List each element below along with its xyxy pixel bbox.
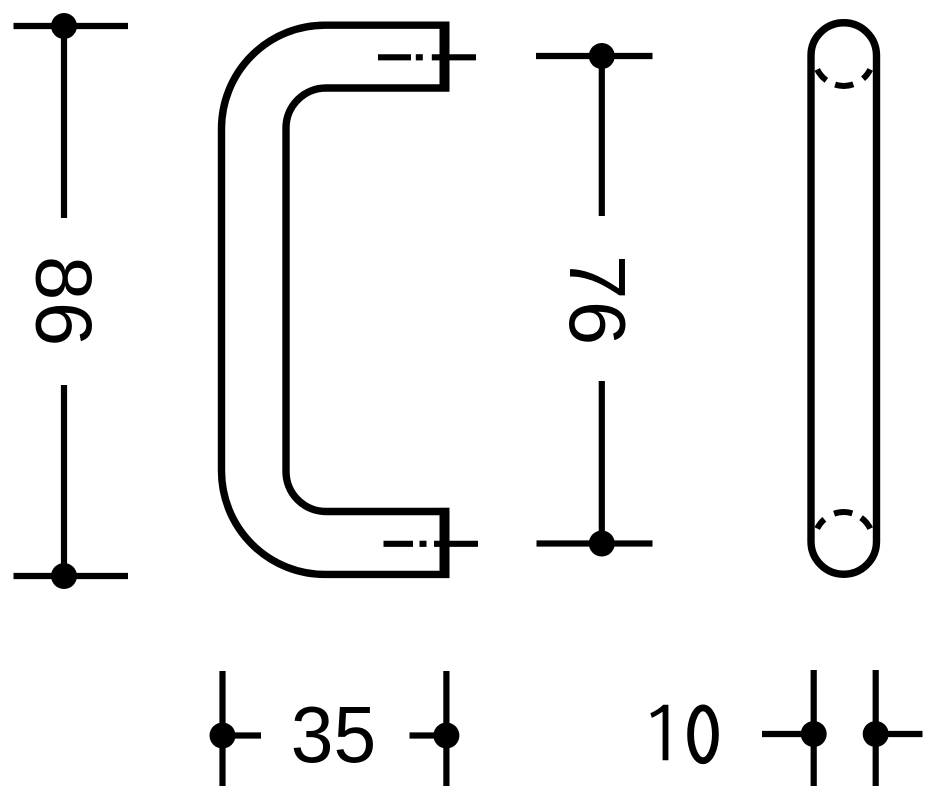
handle front view top bend circle (hidden, dashed) (817, 69, 870, 86)
handle top arm center line (dash-dot) (378, 54, 476, 60)
dimension 86 bottom extension line (14, 573, 129, 579)
dimension 10 value label digit 1 (650, 705, 668, 761)
svg-text:35: 35 (291, 690, 376, 780)
dimension 76 top dot (589, 43, 615, 69)
dimension 86 upper vertical line (61, 26, 67, 218)
handle side view outer contour (222, 25, 450, 574)
dimension 86 top extension line (14, 23, 129, 29)
svg-text:86: 86 (20, 256, 109, 348)
dimension 76 bottom extension line (537, 540, 653, 546)
dimension 10 right dot (863, 721, 889, 747)
svg-text:76: 76 (553, 255, 642, 347)
dimension 35 right dot (433, 723, 459, 749)
dimension 76 upper vertical line (599, 56, 605, 216)
handle side view inner contour (286, 88, 450, 512)
dimension 86 top dot (51, 13, 77, 39)
dimension 10 left stub (762, 731, 814, 737)
dimension 86 bottom dot (51, 563, 77, 589)
dimension 10 left dot (801, 721, 827, 747)
dimension 76 bottom dot (589, 531, 615, 557)
dimension 10 right tick vertical line (873, 670, 879, 786)
dimension 10 left tick vertical line (811, 670, 817, 786)
dimension 76 top extension line (536, 53, 653, 59)
handle top arm end cap (440, 22, 450, 92)
dimension 35 left dot (210, 723, 236, 749)
handle front view bottom bend circle (hidden, dashed) (817, 512, 870, 529)
dimension 76 lower vertical line (599, 381, 605, 544)
dimension 35 right tick vertical line (443, 671, 449, 786)
handle bottom arm end cap (440, 508, 450, 578)
dimension 10 value label digit 0 (691, 708, 716, 761)
handle front view capsule outline (811, 23, 877, 575)
dimension 35 left stub (223, 732, 262, 738)
dimension 86 lower vertical line (61, 385, 67, 576)
handle bottom arm center line (dash-dot) (384, 541, 479, 547)
dimension 35 right stub (410, 732, 447, 738)
dimension 10 right stub (876, 731, 923, 737)
dimension 35 left tick vertical line (219, 671, 225, 786)
